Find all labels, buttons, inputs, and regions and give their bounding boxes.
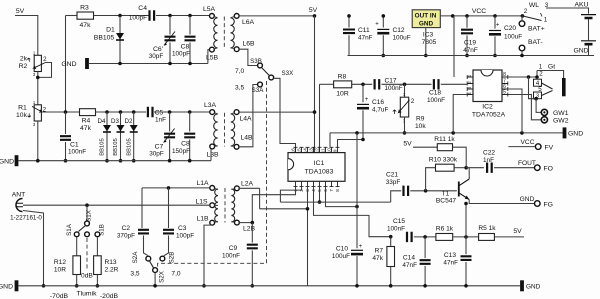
svg-text:33pF: 33pF: [386, 179, 401, 186]
svg-text:5: 5: [503, 89, 506, 95]
svg-text:L5A: L5A: [203, 6, 216, 13]
wire emitter to FG: [469, 200, 534, 204]
wire C11 bottom: [348, 35, 350, 55]
junction IC2 supply tap: [451, 14, 455, 18]
capacitor C17 100nF: [375, 79, 380, 89]
svg-text:GND: GND: [419, 21, 434, 28]
wire C16 bottom lead: [362, 110, 364, 139]
svg-text:BB105: BB105: [100, 138, 106, 155]
svg-text:VCC: VCC: [472, 8, 486, 15]
capacitor C8 100pF: [185, 37, 196, 41]
resistor R12: [73, 256, 81, 275]
wire IC1 pin12 to R8: [320, 83, 334, 85]
svg-text:13: 13: [309, 148, 314, 154]
IC1 bottom pin 6: [324, 181, 328, 186]
IC2 left pin 2: [467, 82, 473, 86]
capacitor C3 100pF: [163, 230, 174, 234]
wire C6' to gnd rail: [169, 43, 171, 64]
IC2 left pin 1: [467, 75, 473, 79]
wire R2 to R1: [37, 72, 39, 105]
wire ANT to L1S: [23, 204, 210, 206]
IC2 right pin 5: [502, 93, 508, 97]
svg-text:FOUT: FOUT: [518, 160, 536, 167]
svg-text:L1A: L1A: [196, 180, 209, 187]
svg-text:8: 8: [503, 72, 506, 78]
svg-text:+: +: [496, 23, 500, 29]
terminal BAT-: [519, 45, 525, 51]
wire pin8 branch to contact3: [529, 77, 537, 99]
IC2 right pin 7: [502, 82, 508, 86]
potentiometer R2: [34, 55, 41, 71]
wire collector up: [468, 168, 470, 179]
inductor L3 winding: [214, 114, 218, 146]
wire ANT sleeve to gnd: [23, 211, 44, 286]
terminal FO: [535, 165, 541, 171]
voltage regulator IC3 7805: [412, 10, 440, 28]
wire to R9: [404, 84, 406, 97]
op-amp IC2 TDA7052A body: [473, 70, 502, 102]
junction S1X: [85, 203, 89, 207]
wire D2 branch: [133, 112, 135, 161]
svg-text:C9: C9: [229, 245, 238, 252]
svg-text:L1B: L1B: [196, 216, 209, 223]
terminal L1A: [210, 186, 215, 191]
junction L2A bus: [306, 207, 310, 211]
junction R9 top: [403, 83, 407, 87]
svg-text:14: 14: [303, 148, 308, 154]
svg-text:FV: FV: [545, 145, 554, 152]
wire to C6': [169, 16, 171, 35]
wire R10 right: [454, 167, 466, 169]
svg-text:47k: 47k: [80, 22, 92, 29]
svg-text:10: 10: [327, 148, 332, 154]
transistor T1 BC547: [458, 182, 460, 197]
svg-text:-70dB: -70dB: [50, 293, 69, 299]
svg-text:2: 2: [539, 71, 543, 78]
junction GW1 tap: [527, 75, 531, 79]
wire S1A to R12: [76, 237, 78, 256]
junction R10 bottom: [424, 189, 428, 193]
junction C14 top: [423, 235, 427, 239]
svg-text:GND: GND: [568, 131, 583, 138]
wire IC2 pin6 to gnd rail: [508, 89, 522, 133]
switch pole S3X: [269, 75, 274, 80]
svg-text:R2: R2: [19, 63, 28, 70]
IC1 bottom pin 7: [330, 181, 334, 186]
ground bar bottom-right: [520, 280, 524, 291]
wire bottom gnd rail: [19, 285, 521, 287]
wire audio bus y202: [280, 201, 390, 203]
junction R2 wiper: [36, 76, 40, 80]
wire C19 bottom: [466, 35, 468, 55]
wire R7 to rail: [390, 267, 392, 286]
terminal FG: [535, 201, 541, 207]
svg-text:TDA7052A: TDA7052A: [472, 112, 506, 119]
svg-text:R11 1k: R11 1k: [434, 136, 455, 143]
potentiometer R1: [34, 105, 41, 121]
node D1 top: [118, 14, 122, 18]
svg-text:47k: 47k: [372, 255, 383, 262]
wire C13 lead: [465, 237, 467, 254]
svg-text:C5: C5: [155, 110, 164, 117]
svg-text:+: +: [375, 22, 379, 28]
inductor L2 winding: [231, 189, 234, 222]
terminal FV: [535, 144, 541, 150]
terminal L2B: [235, 220, 240, 225]
svg-text:BB105: BB105: [113, 138, 119, 155]
potentiometer R9: [400, 97, 408, 117]
switch contact S2A: [146, 256, 151, 261]
jack contact 3 box: [534, 92, 542, 99]
svg-text:370pF: 370pF: [117, 233, 135, 240]
svg-text:100uF: 100uF: [504, 34, 522, 41]
svg-text:IC3: IC3: [423, 32, 434, 39]
svg-text:5V: 5V: [309, 7, 318, 14]
wire emitter to R5 node: [465, 204, 467, 237]
terminal GW2: [541, 117, 547, 123]
svg-text:1: 1: [544, 17, 548, 24]
junction C7 top: [168, 110, 172, 114]
svg-text:8: 8: [335, 189, 340, 192]
wire to C8b: [189, 112, 191, 132]
wire L2A lower run: [260, 208, 308, 210]
svg-text:47k: 47k: [80, 125, 92, 132]
svg-text:L2A: L2A: [241, 181, 254, 188]
terminal L1B: [210, 220, 215, 225]
wire mid gnd rail: [19, 160, 212, 162]
junction C8 top: [188, 14, 192, 18]
svg-text:BAT+: BAT+: [528, 26, 545, 33]
svg-text:L2B: L2B: [243, 226, 256, 233]
capacitor C15 100nF: [407, 232, 412, 242]
svg-text:100pF: 100pF: [129, 15, 147, 22]
wire bus up to C21: [391, 191, 402, 202]
svg-text:10k: 10k: [415, 123, 426, 130]
svg-text:L6A: L6A: [242, 19, 255, 26]
IC2 right pin 8: [502, 75, 508, 79]
capacitor C16 4,7uF electrolytic: [357, 103, 369, 105]
wire C15 to R6: [414, 236, 436, 238]
wire D3 branch: [120, 112, 122, 161]
junction C10 bottom: [355, 284, 359, 288]
resistor R7: [387, 247, 395, 267]
IC1 bottom pin 1: [294, 181, 298, 186]
junction pin5 bus: [318, 200, 322, 204]
wire R6 to R5: [453, 236, 479, 238]
svg-text:AKU: AKU: [575, 2, 589, 9]
wire C16 top lead: [362, 84, 364, 102]
wire L5B down: [208, 50, 210, 64]
svg-text:0dB: 0dB: [81, 273, 93, 280]
terminal L3B: [210, 144, 215, 149]
junction C19: [465, 14, 469, 18]
svg-text:S2B: S2B: [169, 252, 176, 264]
wire IC1 pin2 jog: [280, 187, 301, 203]
wire IC1 pin6 to C10: [326, 187, 358, 207]
svg-text:C8: C8: [181, 44, 190, 51]
svg-text:D4: D4: [98, 118, 106, 125]
wire IC1 pin9 to C16: [338, 140, 364, 148]
resistor R8: [334, 81, 352, 88]
svg-text:+: +: [365, 97, 369, 103]
svg-text:D2: D2: [125, 118, 133, 125]
svg-text:1nF: 1nF: [155, 117, 166, 124]
svg-text:L1S: L1S: [195, 199, 208, 206]
capacitor C14 47nF: [420, 260, 431, 264]
junction C6' top: [168, 14, 172, 18]
trimmer capacitor C7 30pF: [164, 134, 175, 138]
terminal L6A: [234, 14, 239, 19]
svg-text:C4: C4: [138, 5, 147, 12]
mechanical link S3X-S2X dashed: [158, 81, 267, 269]
ground bar upper-left: [85, 58, 89, 69]
junction IC2 pin4 gnd: [451, 131, 455, 135]
wire R3 to C4: [94, 15, 150, 17]
svg-text:C6': C6': [153, 46, 163, 53]
svg-text:12: 12: [315, 148, 320, 154]
wire R5 to 5V: [494, 236, 524, 238]
capacitor C12 100uF electrolytic: [377, 28, 389, 30]
wire L2A out: [239, 187, 259, 189]
svg-text:C10: C10: [336, 246, 348, 253]
terminal L6B: [234, 47, 239, 52]
junction C1 bottom: [64, 159, 68, 163]
capacitor C18 100nF: [434, 79, 439, 89]
wire battery minus: [588, 45, 590, 55]
wire to C7: [169, 112, 171, 132]
core L3/L4: [224, 113, 226, 147]
capacitor C8 150pF: [184, 134, 195, 138]
IC2 right pin 6: [502, 87, 508, 91]
wire to C2: [141, 188, 143, 228]
terminal GW1: [541, 109, 547, 115]
svg-text:3,5: 3,5: [235, 85, 244, 92]
svg-text:R9: R9: [416, 116, 425, 123]
wire to C1: [65, 112, 67, 134]
svg-text:11: 11: [321, 148, 326, 153]
junction bus-L4A: [313, 110, 317, 114]
svg-text:100uF: 100uF: [332, 253, 350, 260]
svg-text:ANT: ANT: [12, 192, 26, 199]
IC2 left pin 4: [467, 93, 473, 97]
wire R1 wiper to R4: [42, 111, 80, 113]
IC1 top pin 10: [330, 147, 334, 152]
wire R8 to C17: [352, 83, 373, 85]
core L1/L2: [224, 188, 226, 223]
svg-text:2.2R: 2.2R: [105, 267, 119, 274]
svg-text:FG: FG: [544, 202, 553, 209]
IC1 bottom pin 2: [300, 181, 304, 186]
wire IC2 pin5 to GW2: [508, 95, 541, 120]
switch pole S1X: [85, 221, 90, 226]
junction R1 gnd: [36, 159, 40, 163]
resistor R5: [479, 234, 495, 241]
svg-text:GW1: GW1: [553, 110, 569, 117]
wire IC2 pin4 to gnd rail: [453, 95, 467, 133]
junction C16 top: [361, 83, 365, 87]
IC1 top pin 15: [300, 147, 304, 152]
junction C8b top: [188, 110, 192, 114]
jack contact 4 box: [534, 79, 542, 86]
wire to C22: [466, 167, 484, 169]
IC1 top pin 13: [312, 147, 316, 152]
svg-text:L3A: L3A: [204, 102, 217, 109]
wire C17 to C18: [382, 83, 432, 85]
wire BAT- to gnd: [521, 51, 523, 56]
switch pole S2X: [153, 268, 158, 273]
svg-text:2k: 2k: [20, 56, 28, 63]
junction R7/C15: [389, 235, 393, 239]
svg-text:C21: C21: [386, 172, 398, 179]
junction emitter tap: [464, 202, 468, 206]
svg-text:5V: 5V: [513, 228, 522, 235]
switch contact S1B middle: [85, 232, 90, 237]
terminal L3A: [210, 110, 215, 115]
IC1 bottom pin 4: [312, 181, 316, 186]
IC1 top pin 12: [318, 147, 322, 152]
wire VCC to IC2 pin1: [453, 16, 455, 77]
svg-text:BB105: BB105: [94, 35, 115, 42]
svg-text:GND: GND: [573, 48, 588, 55]
svg-text:30pF: 30pF: [149, 151, 164, 158]
svg-text:C7: C7: [155, 144, 164, 151]
wire vertical x=65.5: [65, 16, 67, 113]
wire C12 top: [382, 16, 384, 28]
svg-text:47nF: 47nF: [443, 260, 458, 267]
wire L1B to bottom rail: [204, 225, 212, 286]
wire C22 to FO: [494, 167, 534, 169]
wire contact3 to GW1: [536, 99, 541, 113]
capacitor C10 100uF electrolytic: [351, 249, 363, 251]
wire C19 top: [466, 16, 468, 28]
capacitor C22 1nF: [487, 163, 492, 173]
switch contact S3A: [258, 82, 263, 87]
wire C8 to gnd rail: [189, 43, 191, 64]
svg-text:C16: C16: [372, 99, 384, 106]
core L5/L6: [223, 17, 225, 50]
svg-text:OUT IN: OUT IN: [415, 13, 437, 20]
svg-text:7,0: 7,0: [171, 271, 180, 278]
svg-text:2: 2: [411, 98, 415, 105]
wire jack pin1 to sleeve: [537, 71, 564, 79]
svg-text:100nF: 100nF: [427, 97, 445, 104]
svg-text:S2A: S2A: [132, 251, 139, 264]
svg-text:L3B: L3B: [206, 152, 219, 159]
svg-text:100nF: 100nF: [385, 85, 403, 92]
resistor R11: [437, 144, 452, 151]
wire C20 top: [494, 16, 496, 29]
svg-text:R3: R3: [80, 5, 89, 12]
svg-text:47nF: 47nF: [463, 47, 478, 54]
svg-text:Gt: Gt: [548, 64, 555, 71]
switch contact S1A: [74, 232, 79, 237]
wire C20 bottom: [494, 36, 496, 55]
wire C9 top lead: [251, 223, 253, 243]
terminal L4A: [234, 110, 239, 115]
svg-text:C11: C11: [358, 27, 370, 34]
svg-text:C22: C22: [483, 150, 495, 157]
node D2: [132, 110, 136, 114]
svg-text:15: 15: [297, 148, 302, 154]
junction C20: [493, 14, 497, 18]
trimmer capacitor C6' 30pF: [165, 37, 176, 41]
resistor R13: [94, 256, 102, 275]
IC1 top pin 16: [294, 147, 298, 152]
switch WL pole node: [521, 14, 525, 18]
svg-text:S2X: S2X: [159, 271, 166, 283]
junction C1 top: [64, 110, 68, 114]
junction C3 top: [167, 186, 171, 190]
wire C5 to L3A: [154, 111, 210, 113]
wire 5V to R2 top: [15, 16, 38, 56]
svg-text:C19: C19: [464, 40, 476, 47]
wire IC3 IN to battery switch: [440, 15, 522, 17]
ground bar right: [563, 127, 567, 138]
terminal L4B: [234, 144, 239, 149]
svg-text:C18: C18: [429, 90, 441, 97]
svg-text:GND: GND: [526, 283, 541, 290]
svg-text:GW2: GW2: [553, 118, 569, 125]
diode D4 BB105: [103, 125, 111, 132]
antenna jack symbol: [16, 199, 23, 212]
capacitor C9 100nF: [247, 245, 258, 249]
svg-text:2: 2: [524, 8, 528, 15]
svg-text:10R: 10R: [54, 267, 66, 274]
wire C14 lead: [424, 237, 426, 258]
wire C18 to IC2 pin2: [441, 83, 467, 85]
svg-text:D3: D3: [111, 118, 119, 125]
svg-text:R12: R12: [54, 259, 66, 266]
svg-text:GND: GND: [0, 159, 14, 166]
wire top gnd rail: [348, 55, 595, 57]
switch contact S1B: [95, 232, 100, 237]
wire VCC stub: [508, 146, 535, 148]
node D3: [119, 110, 123, 114]
wire C9 to bottom rail: [251, 250, 253, 285]
jack plug bar: [562, 78, 566, 96]
svg-text:16: 16: [291, 148, 296, 154]
svg-text:L4A: L4A: [239, 116, 252, 123]
wire R9 to gnd rail: [404, 117, 406, 133]
svg-text:D1: D1: [106, 27, 115, 34]
inductor L6 winding: [231, 18, 235, 48]
svg-text:7,0: 7,0: [235, 68, 244, 75]
wire C4 to L5A: [156, 15, 210, 17]
svg-text:L4B: L4B: [240, 135, 253, 142]
dashed S1 link: [86, 238, 88, 271]
svg-text:10R: 10R: [336, 91, 349, 98]
wire C12 bottom: [382, 35, 384, 55]
wire L6B to S3B: [239, 49, 257, 65]
wire D4 branch: [106, 112, 108, 161]
wire S3X to IC1 pin16: [274, 78, 296, 152]
battery AKU cells: [581, 15, 596, 41]
svg-text:S3A: S3A: [252, 87, 265, 94]
IC1 top pin 9: [336, 147, 340, 152]
svg-text:2: 2: [43, 56, 47, 63]
capacitor C4 100pF: [150, 10, 155, 20]
terminal L5A: [210, 14, 215, 19]
wire upper gnd rail: [89, 63, 208, 65]
ground bar mid-left: [15, 155, 19, 166]
capacitor C1 100nF: [60, 136, 71, 140]
capacitor C19 47nF: [461, 30, 473, 34]
junction D1 bottom: [118, 62, 122, 66]
svg-text:C1: C1: [70, 142, 79, 149]
svg-text:5V: 5V: [403, 140, 412, 147]
IC1 bottom pin 8: [336, 181, 340, 186]
switch contact S2B: [160, 256, 165, 261]
